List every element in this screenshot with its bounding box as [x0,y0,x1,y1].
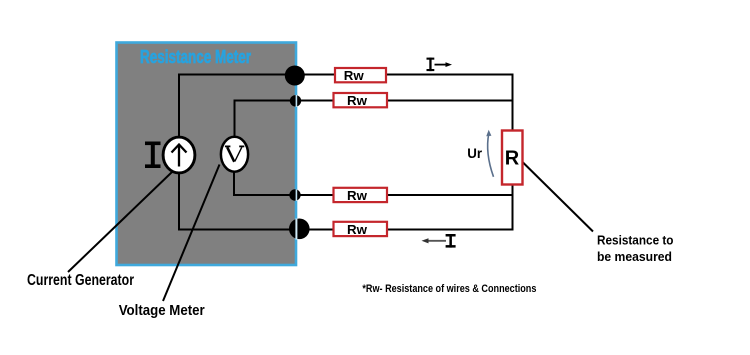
svg-text:Current Generator: Current Generator [27,272,134,289]
svg-text:Rw: Rw [344,68,365,83]
svg-text:*Rw- Resistance of wires & Con: *Rw- Resistance of wires & Connections [362,283,536,295]
svg-text:Ur: Ur [467,145,482,161]
svg-text:R: R [505,148,520,170]
svg-text:Voltage Meter: Voltage Meter [119,303,205,319]
svg-text:Rw: Rw [347,222,368,237]
svg-text:Rw: Rw [347,188,368,203]
svg-text:Rw: Rw [347,93,368,108]
svg-text:Resistance Meter: Resistance Meter [140,47,251,67]
svg-text:Resistance to: Resistance to [597,233,674,248]
svg-text:be measured: be measured [597,249,672,264]
